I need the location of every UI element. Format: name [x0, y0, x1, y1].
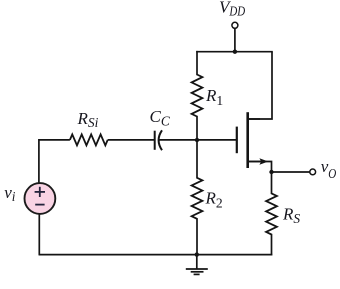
source lead [247, 161, 262, 163]
wire: output node to vO terminal [272, 171, 311, 173]
plus sign [35, 187, 45, 197]
vO terminal circle [310, 169, 316, 175]
wire: R1 to gate node [196, 116, 198, 140]
resistor R1 [192, 75, 203, 117]
wire: drain connection (top rail right side down to drain) [248, 52, 272, 119]
node: ground junction [195, 252, 199, 256]
wire: output node down to RS [271, 172, 273, 194]
wire: VDD terminal to top node [234, 28, 236, 51]
wire: capacitor to gate node [159, 139, 198, 141]
wire: R2 to ground rail [196, 218, 198, 255]
node: output junction [269, 170, 273, 174]
VDD terminal circle [232, 22, 238, 28]
resistor RSi [70, 134, 108, 145]
voltage source vi [25, 183, 56, 214]
wire: gate node to gate bar [197, 139, 236, 141]
wire: vi source to bottom rail [38, 214, 40, 256]
capacitor CC [155, 130, 162, 150]
node: gate junction [195, 138, 199, 142]
wire: gate node down to R2 [196, 140, 198, 179]
resistor RS [266, 193, 277, 234]
wire: top rail down to R1 [196, 51, 198, 75]
wire: RS to bottom rail [271, 234, 273, 256]
node: VDD junction [233, 50, 237, 54]
wire: source lead and corner down to output node [248, 162, 271, 173]
channel bar [246, 112, 249, 168]
wire: bottom ground rail [39, 254, 272, 256]
svg-text:VDD: VDD [219, 0, 245, 18]
ground [186, 255, 208, 275]
resistor R2 [192, 178, 203, 219]
wire: top horizontal rail [196, 51, 273, 53]
transistor M1 (NMOS) [237, 112, 262, 168]
minus sign [35, 204, 44, 206]
source arrow [259, 158, 268, 165]
gate bar [236, 127, 238, 154]
drain lead [247, 118, 260, 120]
wire: RSi to capacitor [108, 139, 154, 141]
wire: left branch from RSi down to source vi [39, 140, 70, 184]
